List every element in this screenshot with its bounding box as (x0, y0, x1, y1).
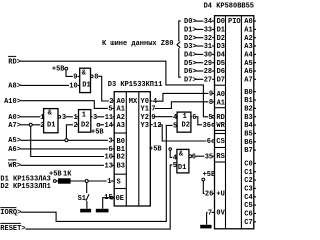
wire D1.3 out to D4 pin 35 RS (195, 155, 204, 157)
port A5 stub (254, 62, 256, 64)
pin 4 stub (176, 116, 177, 118)
svg-text:2: 2 (74, 122, 78, 130)
svg-text:D2 КР1533ЛП1: D2 КР1533ЛП1 (0, 183, 50, 191)
svg-text:A0: A0 (244, 18, 252, 26)
node RESET input overline (0, 222, 21, 224)
svg-text:D3>: D3> (184, 43, 197, 51)
svg-text:32: 32 (204, 35, 212, 43)
svg-text:D1: D1 (178, 164, 186, 172)
+5V terminal for D3 pin 14 circle (97, 123, 100, 126)
svg-text:27: 27 (204, 77, 212, 85)
IC D3 pin 15 bubble (110, 196, 113, 199)
port C0 stub (254, 162, 256, 164)
svg-text:A6>: A6> (8, 146, 21, 154)
wire D3 to pin 31 (195, 45, 204, 47)
svg-text:A0>: A0> (8, 114, 21, 122)
pin 27 stub (212, 78, 214, 80)
svg-text:C5: C5 (244, 202, 252, 210)
pin 6 CS bubble (212, 140, 215, 143)
svg-text:14: 14 (105, 122, 113, 130)
svg-text:5: 5 (173, 162, 177, 170)
wire D2.2 out to D4 pin 36 WR (196, 117, 202, 125)
svg-text:+5В: +5В (203, 171, 216, 179)
svg-text:8: 8 (94, 74, 98, 82)
pin 3 stub (112, 139, 114, 141)
wire Y3 to D4 pin 6 CS (159, 125, 207, 141)
svg-text:A4: A4 (244, 52, 252, 60)
port B7 stub (254, 149, 256, 151)
svg-text:PIO: PIO (228, 18, 241, 26)
svg-text:B2: B2 (244, 106, 252, 114)
pin 10 stub (112, 156, 114, 158)
svg-text:C0: C0 (244, 161, 252, 169)
ground bar under D4 (200, 225, 211, 229)
pin 36 WR bubble (212, 124, 215, 127)
svg-text:11: 11 (105, 114, 113, 122)
svg-text:D4>: D4> (184, 52, 197, 60)
port C5 stub (254, 204, 256, 206)
IC D4 cell separator (215, 147, 226, 149)
svg-text:35: 35 (205, 153, 213, 161)
svg-text:D5: D5 (217, 60, 225, 68)
port B6 stub (254, 141, 256, 143)
pin 9 stub (149, 116, 152, 118)
port B3 stub (254, 116, 256, 118)
svg-text:0E: 0E (116, 195, 124, 203)
svg-text:D2: D2 (217, 35, 225, 43)
wire A5 to D3 pin 3 (21, 139, 108, 141)
svg-text:D5>: D5> (184, 60, 197, 68)
pin 8 stub (213, 101, 215, 103)
svg-text:33: 33 (204, 27, 212, 35)
svg-text:3: 3 (93, 114, 97, 122)
pin 2 stub (42, 124, 43, 126)
gate D1.2 body (44, 109, 58, 133)
wire A6 to D3 pin 6 (21, 148, 108, 150)
svg-text:29: 29 (204, 60, 212, 68)
svg-text:RESET>: RESET> (0, 225, 25, 233)
IC D3 divider right (138, 92, 140, 206)
IC D4 column divider left (225, 16, 227, 229)
switch S1 lower lead (86, 201, 88, 209)
svg-text:Y3: Y3 (141, 122, 149, 130)
port B4 stub (254, 124, 256, 126)
svg-text:5: 5 (108, 106, 112, 114)
svg-text:34: 34 (204, 18, 212, 26)
ground bar under S1 (80, 209, 91, 213)
wire D3 pin 15 OE to ground (103, 198, 111, 209)
svg-text:RD: RD (216, 114, 224, 122)
+5V terminal circle (53, 180, 56, 183)
svg-text:0V: 0V (216, 210, 225, 218)
svg-text:D6: D6 (217, 68, 225, 76)
svg-text:9: 9 (209, 91, 213, 99)
pin 5 stub (176, 164, 177, 166)
svg-text:D3: D3 (217, 43, 225, 51)
port A4 stub (254, 53, 256, 55)
port C7 stub (254, 221, 256, 223)
svg-text:B7: B7 (244, 147, 252, 155)
svg-text:B0: B0 (117, 138, 125, 146)
wire Y0 to D4 pin 9 (156, 93, 208, 101)
svg-text:D1: D1 (82, 82, 90, 90)
svg-text:B5: B5 (244, 131, 252, 139)
svg-text:S: S (117, 178, 121, 186)
svg-text:B4: B4 (244, 122, 252, 130)
wire A5 junction to D2.1 pin 2 (66, 125, 73, 139)
svg-text:B0: B0 (244, 89, 252, 97)
pin 6 stub out (191, 116, 192, 118)
svg-text:A8>: A8> (8, 83, 21, 91)
port A6 stub (254, 70, 256, 72)
svg-text:1: 1 (107, 178, 111, 186)
wire A0 to D1.2 pin 1 (21, 116, 41, 118)
svg-text:6: 6 (108, 146, 112, 154)
svg-text:D4 KP580BB55: D4 KP580BB55 (204, 2, 254, 10)
port C2 stub (254, 179, 256, 181)
+5V terminal circle (65, 67, 68, 70)
wire D1 to pin 33 (195, 28, 204, 30)
svg-text:RD>: RD> (8, 58, 21, 66)
pin 5 RD bubble (212, 116, 215, 119)
svg-text:C4: C4 (244, 194, 252, 202)
svg-text:A2: A2 (117, 114, 125, 122)
wire WR to D3 pin 13 (21, 164, 104, 166)
port C1 stub (254, 171, 256, 173)
svg-text:A1: A1 (217, 100, 225, 108)
svg-text:6: 6 (207, 138, 211, 146)
wire D7 to pin 27 (195, 78, 204, 80)
pin 34 stub (212, 20, 214, 22)
wire D4 to pin 30 (195, 53, 204, 55)
pin 32 stub (212, 37, 214, 39)
svg-text:A0: A0 (217, 91, 225, 99)
svg-text:Y1: Y1 (141, 106, 149, 114)
gate D1.2 output bubble (58, 116, 61, 119)
wire D1.2 out to D2.1 pin 1 (66, 116, 73, 118)
svg-text:D2: D2 (81, 122, 89, 130)
svg-text:D1: D1 (47, 122, 55, 130)
port B5 stub (254, 132, 256, 134)
IC D4 cell separator (215, 129, 226, 131)
gate D1.3 body (177, 149, 189, 173)
svg-text:D3 КР1533КП11: D3 КР1533КП11 (108, 81, 163, 89)
IC D4 cell separator (215, 133, 226, 135)
svg-text:WR: WR (216, 122, 225, 130)
wire D0 to pin 34 (195, 20, 204, 22)
svg-text:1: 1 (82, 112, 86, 120)
svg-text:C1: C1 (244, 169, 252, 177)
svg-text:30: 30 (204, 52, 212, 60)
pin 2 stub (112, 100, 114, 102)
svg-text:A3: A3 (244, 43, 252, 51)
switch S1 blade (86, 194, 89, 201)
pin 28 stub (212, 70, 214, 72)
pin 31 stub (212, 45, 214, 47)
svg-text:3: 3 (108, 138, 112, 146)
junction on A5 line (65, 139, 68, 142)
svg-text:36: 36 (203, 122, 211, 130)
port C6 stub (254, 213, 256, 215)
svg-text:A5>: A5> (8, 137, 21, 145)
wire +5V to D3 pin 14 (100, 124, 104, 126)
wire A7 junction to D3 pin 10 (31, 126, 104, 156)
svg-text:MX: MX (129, 98, 138, 106)
pin 11 stub (112, 116, 114, 118)
wire A7 to D1.2 pin 2 (21, 124, 41, 126)
svg-text:+U: +U (216, 191, 224, 199)
wire A10 to D3 pin 5 (21, 101, 108, 109)
svg-text:1: 1 (74, 114, 78, 122)
svg-text:D1: D1 (217, 27, 225, 35)
pin 10 stub (78, 84, 80, 86)
IC D3 cell separator A/B (114, 132, 126, 134)
IC D3 body outline (114, 92, 150, 206)
wire RD to D4 pin 5 (21, 61, 209, 117)
svg-text:WR>: WR> (8, 162, 21, 170)
svg-text:26: 26 (205, 191, 213, 199)
pin 6 stub (112, 148, 114, 150)
svg-text:RS: RS (216, 153, 224, 161)
svg-text:4: 4 (173, 114, 177, 122)
port A7 stub (254, 78, 256, 80)
port A0 stub (254, 20, 256, 22)
svg-text:C7: C7 (244, 219, 252, 227)
pin 9 stub (213, 92, 215, 94)
pin 30 stub (212, 53, 214, 55)
svg-text:7: 7 (208, 210, 212, 218)
pin 7 stub (149, 107, 152, 109)
wire IORQ to D2.2 pin 5 (21, 125, 173, 221)
svg-text:B3: B3 (244, 114, 252, 122)
svg-text:5: 5 (173, 123, 177, 131)
wire D6 to pin 28 (195, 70, 204, 72)
svg-text:9: 9 (151, 114, 155, 122)
svg-text:15: 15 (104, 194, 112, 202)
svg-text:B6: B6 (244, 139, 252, 147)
svg-text:C2: C2 (244, 177, 252, 185)
svg-text:C3: C3 (244, 186, 252, 194)
pin 5 stub (112, 107, 114, 109)
+5V terminal circle (169, 148, 172, 151)
svg-text:S1: S1 (78, 195, 86, 203)
gate D1.1 body (80, 68, 91, 92)
svg-text:A6: A6 (244, 68, 252, 76)
svg-text:6: 6 (192, 154, 196, 162)
svg-text:+5В: +5В (49, 171, 62, 179)
pin 3 stub out (91, 116, 93, 118)
svg-text:12: 12 (153, 122, 161, 130)
IC D3 cell separator S/OE (114, 188, 126, 190)
pin 12 stub (150, 124, 152, 126)
svg-text:9: 9 (73, 74, 77, 82)
svg-text:D0>: D0> (184, 18, 197, 26)
svg-text:8: 8 (209, 99, 213, 107)
pin 13 stub (112, 164, 114, 166)
port A3 stub (254, 45, 256, 47)
svg-text:IORQ>: IORQ> (0, 209, 21, 217)
resistor R1 body (58, 178, 71, 183)
port A1 stub (254, 28, 256, 30)
port B2 stub (254, 107, 256, 109)
svg-text:A7>: A7> (8, 122, 21, 130)
pin 1 stub (42, 116, 43, 118)
svg-text:+5В: +5В (52, 66, 65, 74)
pin 29 stub (212, 62, 214, 64)
+5V terminal circle (202, 178, 205, 181)
IC D3 cell separator B/S (114, 173, 126, 175)
svg-text:D0: D0 (217, 18, 225, 26)
svg-text:+5В: +5В (91, 128, 104, 136)
gate D1.1 output bubble (91, 75, 94, 78)
IC D4 cell separator (215, 84, 226, 86)
svg-text:A10>: A10> (4, 98, 21, 106)
wire Y2 to D2.2 pin 4 (155, 116, 173, 118)
svg-text:D2>: D2> (184, 35, 197, 43)
svg-text:10: 10 (69, 83, 77, 91)
pin 1 stub (77, 116, 79, 118)
svg-text:D2: D2 (182, 122, 190, 130)
port C4 stub (254, 196, 256, 198)
IC D4 cell separator (215, 161, 226, 163)
node IORQ input overline (0, 207, 16, 209)
port C3 stub (254, 187, 256, 189)
svg-text:A1: A1 (244, 27, 252, 35)
IC D4 column divider right (240, 16, 242, 229)
IC D3 divider left (125, 92, 127, 206)
wire D2 to pin 32 (195, 37, 204, 39)
svg-text:CS: CS (216, 138, 224, 146)
svg-text:A1: A1 (117, 106, 125, 114)
gate D2.2 body (177, 112, 191, 132)
gate D1.3 output bubble (189, 155, 192, 158)
junction on S line (85, 180, 88, 183)
wire RESET to D1.3 pin 5 (25, 165, 172, 229)
port B0 stub (254, 91, 256, 93)
switch S1 upper lead (86, 183, 88, 194)
pin 4 stub (176, 156, 177, 158)
bus bracket (179, 21, 181, 41)
wire resistor to D3 pin 1 S (71, 180, 107, 182)
svg-text:13: 13 (105, 163, 113, 171)
pin 1 stub (111, 180, 115, 182)
svg-text:C6: C6 (244, 211, 252, 219)
pin 9 stub (78, 75, 80, 77)
svg-text:A7: A7 (244, 77, 252, 85)
svg-text:D6>: D6> (184, 68, 197, 76)
pin 35 stub (212, 155, 214, 157)
svg-text:A2: A2 (244, 35, 252, 43)
wire D5 to pin 29 (195, 62, 204, 64)
svg-text:К шине данных Z80: К шине данных Z80 (102, 40, 173, 48)
IC D4 cell separator (215, 107, 226, 109)
wire +5V to D1.3 pin 4 (170, 150, 172, 157)
svg-text:B1: B1 (244, 97, 252, 105)
svg-text:3: 3 (62, 114, 66, 122)
wire A8 to D1.1 pin 10 (21, 84, 70, 86)
svg-text:1К: 1К (63, 171, 72, 179)
svg-text:D1>: D1> (184, 27, 197, 35)
svg-text:1: 1 (183, 113, 187, 121)
svg-text:B2: B2 (117, 154, 125, 162)
gate D2.1 body (79, 110, 91, 133)
svg-text:Y2: Y2 (141, 114, 149, 122)
port B1 stub (254, 99, 256, 101)
node RD input overline (8, 55, 16, 57)
pin 33 stub (212, 28, 214, 30)
wire +5V to D4 pin 26 (203, 181, 204, 194)
svg-text:B3: B3 (117, 163, 125, 171)
pin 14 stub (112, 124, 114, 126)
svg-text:10: 10 (105, 154, 113, 162)
wire D4 pin 7 0V to ground (211, 211, 214, 213)
svg-text:1: 1 (40, 114, 44, 122)
pin 26 stub (213, 192, 215, 194)
wire +5V to resistor (56, 180, 58, 182)
svg-text:D7>: D7> (184, 77, 197, 85)
svg-text:31: 31 (204, 43, 212, 51)
pin 5 stub (176, 124, 177, 126)
wire D1.1 out to D3 pin 2 (98, 76, 109, 101)
wire D2.1 out to D3 pin 11 (97, 116, 105, 118)
svg-text:A3: A3 (117, 122, 125, 130)
IC D4 body outline (215, 16, 254, 229)
wire Y1 to D4 pin 8 (155, 102, 209, 109)
svg-text:A5: A5 (244, 60, 252, 68)
svg-text:7: 7 (151, 106, 155, 114)
svg-text:6: 6 (192, 114, 196, 122)
port A2 stub (254, 37, 256, 39)
ground bar under OE (96, 209, 109, 213)
wire +5V to pin 9 (66, 70, 73, 76)
junction on A7 line (29, 123, 32, 126)
pin 4 stub (150, 100, 152, 102)
node WR input overline (8, 159, 16, 161)
svg-text:28: 28 (204, 68, 212, 76)
pin 2 stub (77, 124, 79, 126)
svg-text:+5В: +5В (149, 146, 162, 154)
svg-text:D4: D4 (217, 52, 225, 60)
svg-text:2: 2 (40, 122, 44, 130)
svg-text:D7: D7 (217, 77, 225, 85)
